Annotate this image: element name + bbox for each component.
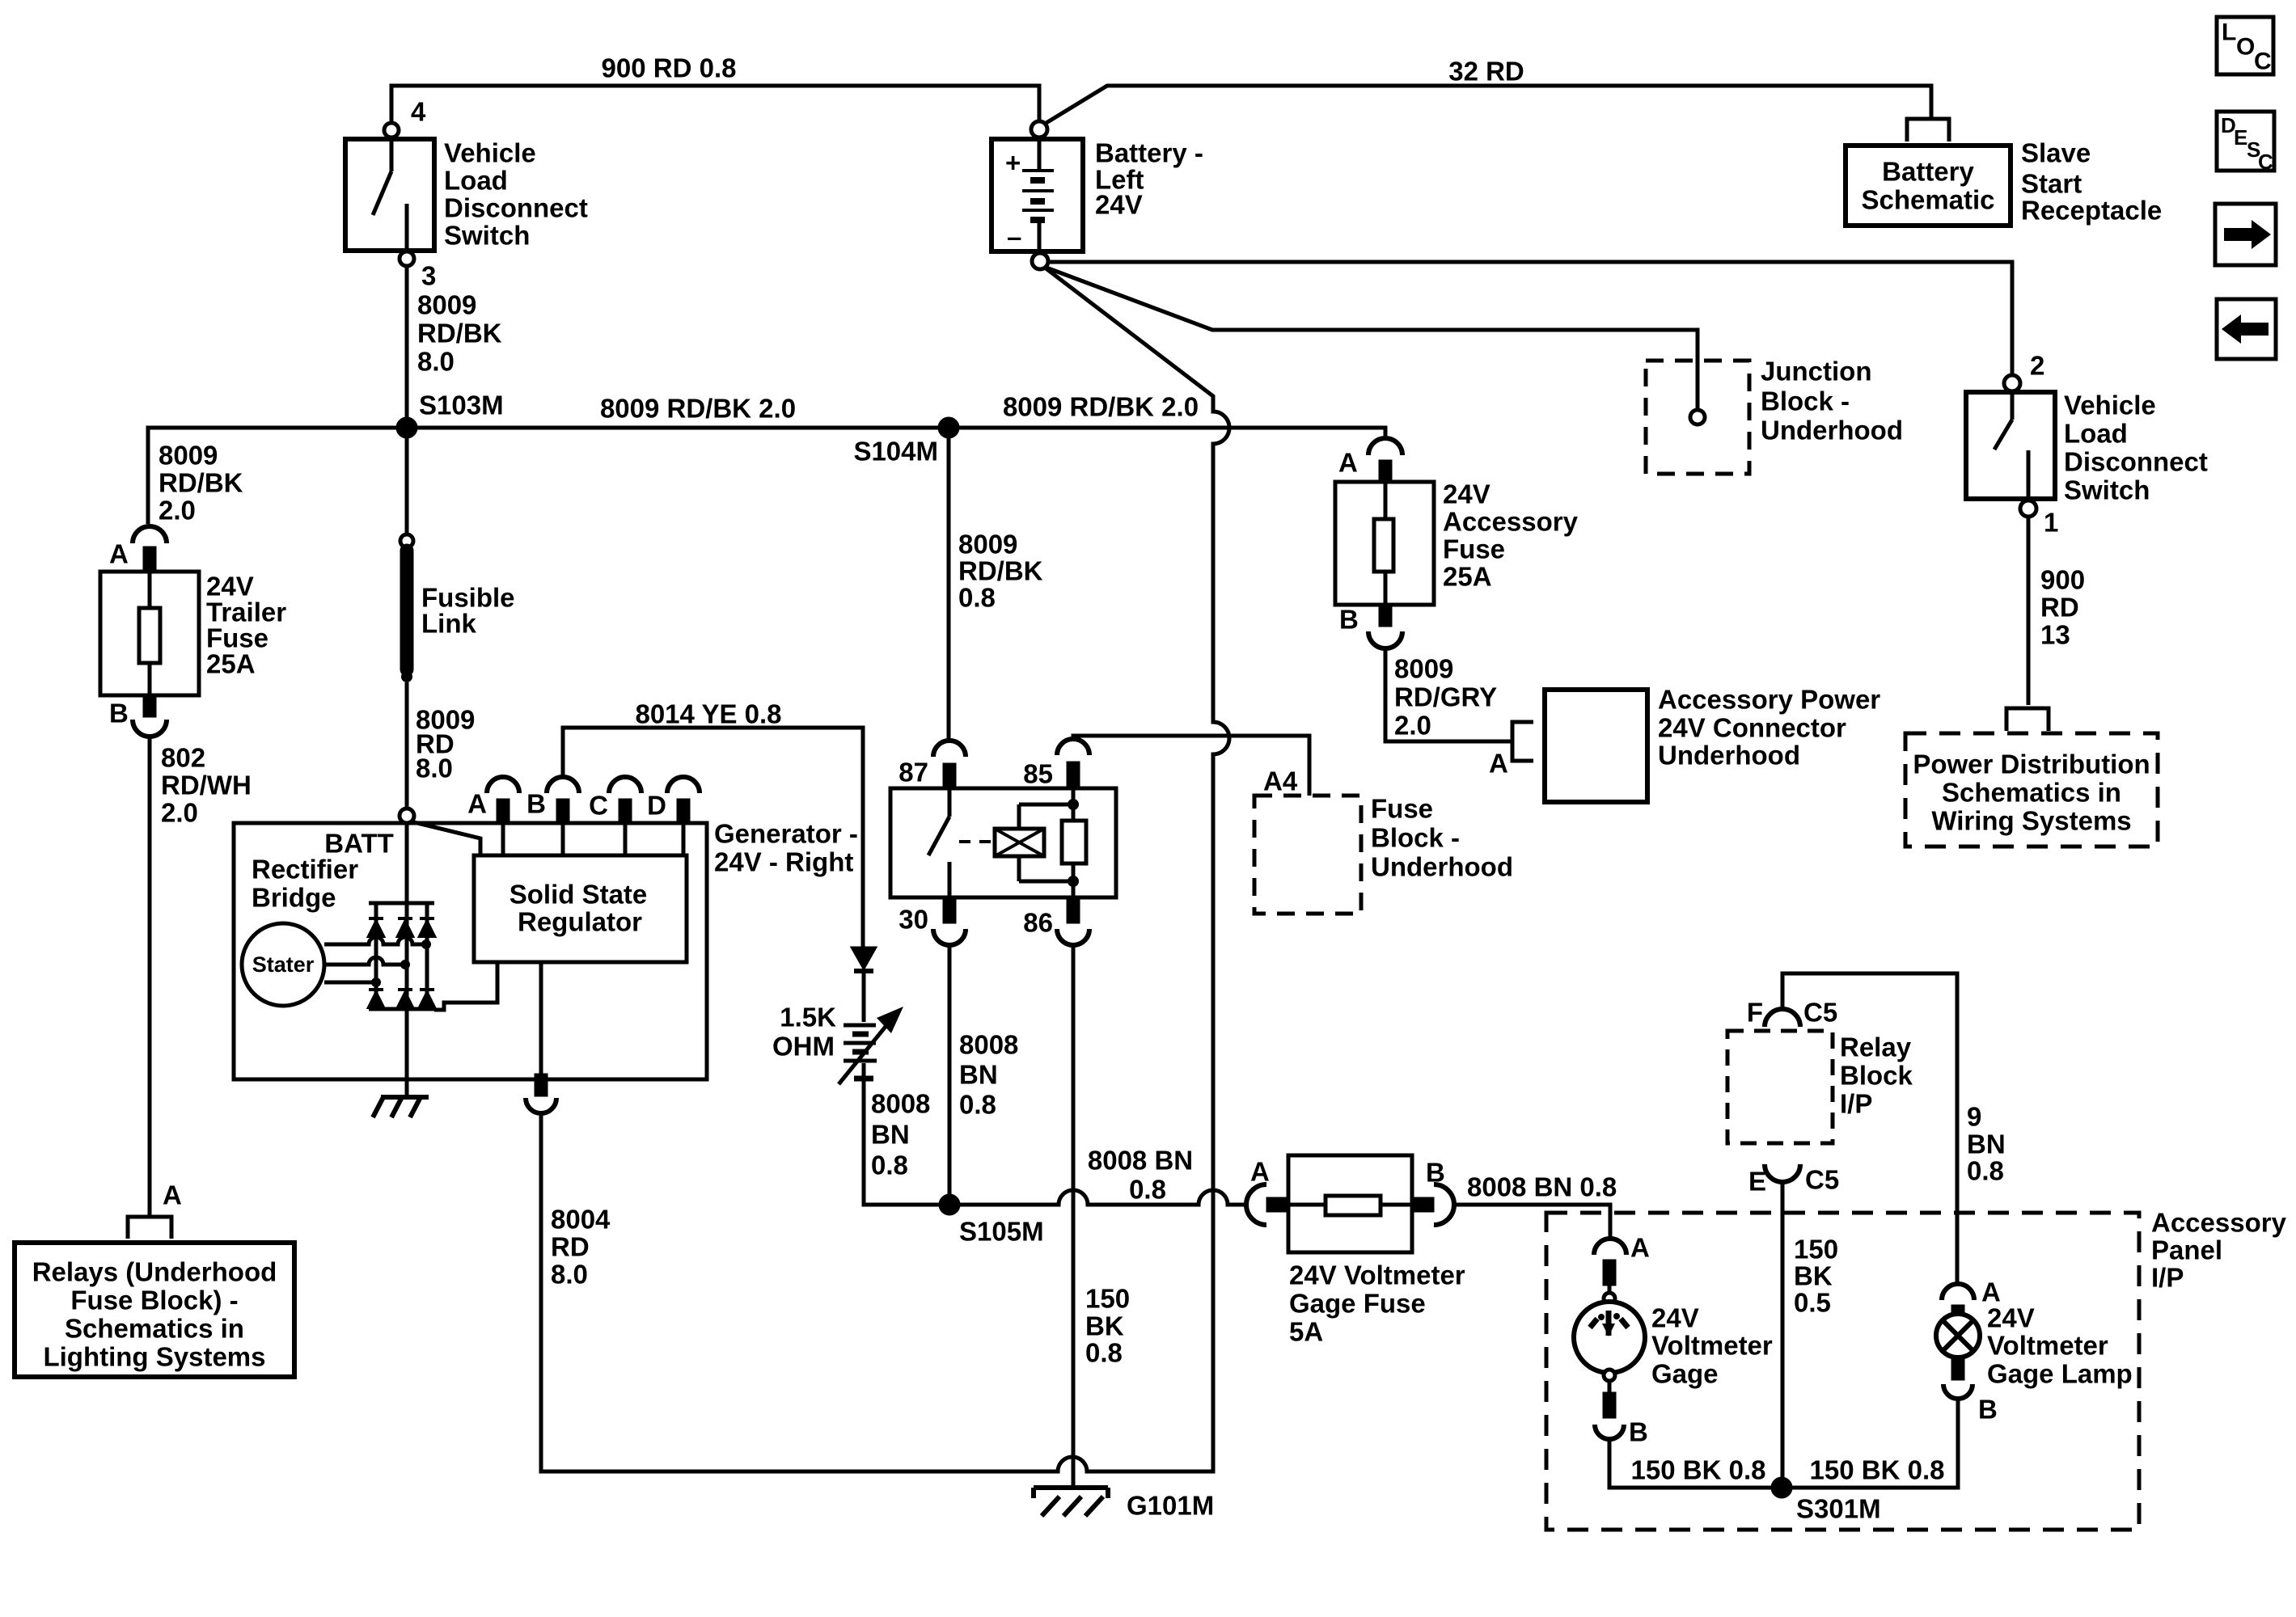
svg-text:8008: 8008 [871, 1089, 930, 1119]
svg-text:8.0: 8.0 [551, 1260, 588, 1290]
relay pin 87 [933, 741, 966, 788]
svg-text:8.0: 8.0 [416, 754, 453, 783]
svg-text:A: A [467, 789, 487, 819]
svg-text:RD/BK: RD/BK [159, 468, 243, 498]
label 24V Voltmeter Gage Lamp [1987, 1303, 2133, 1389]
wire 802 RD/WH 2.0 [148, 737, 152, 1217]
svg-text:Bridge: Bridge [252, 883, 336, 913]
svg-text:8004: 8004 [551, 1205, 611, 1235]
svg-text:2.0: 2.0 [159, 496, 196, 526]
label Slave Start Receptacle [2021, 138, 2162, 226]
generator connector D [667, 777, 700, 855]
svg-text:Battery: Battery [1882, 157, 1974, 187]
node S103M [398, 419, 416, 437]
svg-text:B: B [1339, 605, 1359, 635]
wire 150 BK 0.8 (relay 86 to G101M) [1072, 945, 1076, 1486]
relay pin 30 [933, 897, 966, 945]
svg-text:Schematic: Schematic [1861, 185, 1994, 215]
svg-text:Fuse Block) -: Fuse Block) - [70, 1286, 238, 1315]
svg-text:Receptacle: Receptacle [2021, 196, 2162, 226]
svg-text:Stater: Stater [252, 952, 315, 977]
svg-text:A: A [1630, 1233, 1650, 1263]
svg-text:E: E [2234, 125, 2247, 150]
svg-text:Link: Link [421, 609, 476, 639]
svg-text:Fuse: Fuse [1371, 794, 1433, 824]
svg-text:Relay: Relay [1840, 1032, 1912, 1062]
svg-text:Switch: Switch [2064, 475, 2150, 505]
svg-text:900 RD 0.8: 900 RD 0.8 [602, 53, 737, 83]
svg-text:0.8: 0.8 [958, 583, 996, 613]
wire relay 85 to fuse block A4 [1073, 736, 1309, 796]
svg-text:802: 802 [161, 743, 205, 773]
power distribution receptacle [2006, 708, 2049, 731]
svg-text:O: O [2236, 34, 2255, 61]
wire 8009 RD/BK 2.0 (main bus) [148, 428, 1385, 524]
svg-text:S104M: S104M [853, 437, 938, 467]
svg-text:BN: BN [959, 1060, 998, 1090]
label 8009 RD/GRY 2.0 [1394, 654, 1497, 741]
svg-text:Fuse: Fuse [1443, 534, 1505, 564]
svg-text:Switch: Switch [444, 221, 530, 251]
svg-text:9: 9 [1967, 1102, 1981, 1132]
svg-text:Disconnect: Disconnect [444, 193, 588, 223]
svg-text:8009 RD/BK 2.0: 8009 RD/BK 2.0 [1003, 392, 1199, 422]
diode (1.5K branch) [853, 948, 874, 971]
svg-text:RD/BK: RD/BK [417, 319, 502, 348]
relay block I/P dashed box [1727, 1031, 1833, 1143]
label 900 RD 13 [2040, 565, 2085, 650]
svg-text:I/P: I/P [2151, 1263, 2184, 1293]
regulator output connector [526, 962, 556, 1113]
svg-text:BN: BN [871, 1120, 910, 1150]
svg-text:24V Voltmeter: 24V Voltmeter [1289, 1260, 1465, 1290]
power distribution guide box [1905, 733, 2158, 846]
svg-text:Power Distribution: Power Distribution [1913, 749, 2150, 779]
svg-text:8008 BN 0.8: 8008 BN 0.8 [1467, 1172, 1617, 1202]
svg-text:Voltmeter: Voltmeter [1987, 1331, 2108, 1361]
svg-text:0.8: 0.8 [959, 1090, 996, 1120]
wire 8009 RD/BK 0.8 (S104M to relay 87) [947, 437, 951, 739]
svg-text:150: 150 [1085, 1284, 1130, 1314]
svg-text:Block -: Block - [1371, 823, 1460, 853]
wire BATT terminal to regulator [411, 821, 480, 855]
generator connector A [487, 777, 519, 855]
relays guide box [15, 1243, 294, 1377]
svg-text:S105M: S105M [959, 1217, 1044, 1247]
svg-text:24V: 24V [1443, 479, 1490, 509]
svg-text:32 RD: 32 RD [1448, 57, 1524, 87]
back arrow icon [2217, 299, 2276, 359]
svg-text:Rectifier: Rectifier [252, 855, 358, 884]
wire 8008 BN 0.8 (relay 30 to S105M) [948, 945, 952, 1196]
svg-text:0.8: 0.8 [871, 1150, 908, 1180]
svg-text:OHM: OHM [772, 1032, 835, 1062]
wire 900 RD 0.8 [391, 86, 1039, 123]
wire 150 BK 0.5 (E to S301M) [1781, 1182, 1785, 1484]
svg-text:5A: 5A [1289, 1317, 1323, 1347]
wire 8004 RD 8.0 [541, 268, 1229, 1471]
stater phase wire 2 [324, 957, 405, 965]
svg-text:Generator -: Generator - [714, 819, 858, 849]
svg-text:8008 BN: 8008 BN [1088, 1146, 1193, 1176]
svg-text:Block: Block [1840, 1061, 1913, 1091]
battery schematic guide box [1846, 146, 2011, 226]
svg-text:8008: 8008 [959, 1030, 1018, 1060]
wire 8014 YE 0.8 [563, 728, 863, 947]
svg-text:3: 3 [421, 261, 436, 291]
DESC icon [2217, 112, 2274, 171]
svg-text:0.8: 0.8 [1967, 1156, 2004, 1186]
ground G101M [1034, 1488, 1108, 1516]
svg-text:A: A [163, 1180, 182, 1210]
svg-text:8014 YE 0.8: 8014 YE 0.8 [635, 699, 781, 729]
wire 8009 RD 8.0 [405, 682, 409, 808]
svg-text:A: A [1489, 749, 1508, 779]
node S105M [941, 1196, 958, 1214]
wire 150 BK 0.8 (gage B to S301M) [1609, 1439, 1773, 1488]
svg-text:L: L [2222, 19, 2236, 46]
stater phase wire 1 [324, 937, 426, 944]
svg-text:Start: Start [2021, 169, 2082, 199]
voltmeter needle [1590, 1311, 1628, 1336]
label 150 BK 0.5 [1794, 1235, 1838, 1318]
label 8008 BN 0.8 (middle) [959, 1030, 1018, 1120]
svg-text:Schematics in: Schematics in [1942, 778, 2121, 808]
svg-text:Schematics in: Schematics in [65, 1314, 244, 1344]
junction block underhood [1646, 361, 1749, 474]
svg-text:13: 13 [2040, 620, 2070, 650]
24V voltmeter gage connector A [1594, 1239, 1626, 1284]
relay internal wiring (bottom) [1019, 856, 1079, 897]
label 8008 BN 0.8 (left) [871, 1089, 930, 1180]
label Junction Block - Underhood [1761, 357, 1903, 445]
svg-text:Underhood: Underhood [1761, 416, 1903, 445]
node S104M [940, 419, 958, 437]
svg-text:150 BK 0.8: 150 BK 0.8 [1631, 1455, 1766, 1485]
relay resistor [1062, 821, 1086, 863]
label Generator - 24V - Right [714, 819, 858, 877]
wire battery to junction block [1047, 268, 1698, 410]
svg-text:8009: 8009 [958, 530, 1017, 559]
svg-text:C5: C5 [1803, 998, 1837, 1028]
label 8004 RD 8.0 [551, 1205, 611, 1290]
stater phase wire 3 [324, 981, 376, 985]
wire 32 RD [1045, 86, 1931, 124]
svg-text:S301M: S301M [1796, 1494, 1881, 1524]
24V trailer fuse [100, 526, 199, 737]
wire S103M to fusible link [405, 437, 409, 534]
solid state regulator [474, 855, 687, 962]
svg-text:RD/WH: RD/WH [161, 771, 252, 800]
svg-text:24V Connector: 24V Connector [1658, 713, 1846, 743]
svg-text:A: A [109, 539, 129, 569]
label 8009 RD/BK 2.0 (branch to trailer fuse) [159, 441, 243, 526]
svg-text:Relays (Underhood: Relays (Underhood [32, 1257, 277, 1287]
connector E C5 [1765, 1164, 1800, 1182]
svg-text:Junction: Junction [1761, 357, 1872, 386]
svg-text:RD: RD [2040, 593, 2079, 623]
svg-text:8009: 8009 [417, 290, 476, 320]
label 24V Accessory Fuse 25A [1443, 479, 1579, 592]
svg-text:C5: C5 [1805, 1165, 1839, 1195]
svg-text:Regulator: Regulator [518, 907, 642, 937]
svg-text:2.0: 2.0 [1394, 711, 1431, 741]
svg-text:Slave: Slave [2021, 138, 2091, 168]
wire BATT to internal ground [405, 823, 409, 1096]
svg-text:B: B [526, 789, 546, 819]
svg-text:B: B [1978, 1395, 1998, 1425]
label Vehicle Load Disconnect Switch (left) [444, 138, 588, 251]
label 150 BK 0.8 (86 wire) [1085, 1284, 1130, 1368]
svg-text:Vehicle: Vehicle [444, 138, 536, 168]
svg-text:Gage: Gage [1651, 1359, 1719, 1389]
relay pin 85 [1057, 739, 1089, 788]
generator BATT terminal [400, 808, 414, 823]
relay pin 86 [1057, 897, 1089, 945]
svg-text:1: 1 [2044, 508, 2058, 538]
label Rectifier Bridge [252, 855, 358, 913]
label 24V Voltmeter Gage [1651, 1303, 1773, 1389]
svg-text:Lighting Systems: Lighting Systems [43, 1342, 265, 1372]
svg-text:Accessory Power: Accessory Power [1658, 685, 1880, 715]
svg-text:24V - Right: 24V - Right [714, 847, 853, 877]
svg-text:A4: A4 [1263, 766, 1298, 796]
svg-text:Disconnect: Disconnect [2064, 447, 2208, 477]
vehicle load disconnect switch (right) [1966, 375, 2055, 517]
node S301M [1773, 1479, 1791, 1497]
svg-text:87: 87 [899, 758, 928, 787]
svg-text:24V: 24V [1095, 190, 1143, 220]
svg-text:D: D [647, 791, 666, 821]
wire 8009 RD/BK 8.0 [405, 266, 409, 424]
svg-text:8009 RD/BK 2.0: 8009 RD/BK 2.0 [600, 394, 796, 424]
svg-text:0.8: 0.8 [1085, 1338, 1123, 1368]
generator box [234, 823, 707, 1079]
label 8009 RD/BK 8.0 [417, 290, 502, 377]
wire 8008 BN 0.8 (fuse B to voltmeter) [1454, 1205, 1610, 1239]
svg-text:8.0: 8.0 [417, 347, 455, 377]
wire 8008 BN 0.8 (resistor to S105M) [864, 1063, 941, 1205]
fusible link [400, 534, 413, 682]
wire battery to right disconnect switch [1048, 262, 2012, 375]
label 8008 BN 0.8 (at hops) [1088, 1146, 1193, 1205]
variable resistor 1.5K OHM [839, 1007, 903, 1084]
svg-text:8009: 8009 [159, 441, 218, 471]
svg-text:Battery -: Battery - [1095, 138, 1203, 168]
svg-text:Gage Fuse: Gage Fuse [1289, 1289, 1426, 1319]
svg-text:30: 30 [899, 905, 928, 935]
svg-text:S103M: S103M [419, 391, 504, 420]
svg-text:1.5K: 1.5K [780, 1003, 836, 1032]
svg-text:2.0: 2.0 [161, 798, 198, 828]
generator internal ground [373, 1097, 429, 1117]
svg-text:25A: 25A [206, 649, 256, 679]
24V voltmeter gage [1574, 1284, 1645, 1439]
svg-text:Underhood: Underhood [1658, 741, 1800, 771]
svg-text:I/P: I/P [1840, 1089, 1872, 1119]
wire diode to variable resistor [862, 973, 866, 1022]
connector A (accessory power) [1512, 722, 1533, 761]
svg-text:Load: Load [2064, 419, 2128, 449]
svg-text:A: A [1250, 1157, 1270, 1187]
svg-text:150: 150 [1794, 1235, 1838, 1264]
svg-text:85: 85 [1023, 759, 1053, 789]
battery schematic receptacle [1907, 119, 1949, 141]
relay [890, 788, 1116, 897]
accessory power 24V connector underhood box [1545, 690, 1647, 802]
svg-text:RD: RD [551, 1232, 590, 1262]
relay coil [995, 829, 1044, 856]
svg-text:+: + [1005, 148, 1021, 178]
svg-text:25A: 25A [1443, 562, 1492, 592]
24V voltmeter gage lamp [1936, 1314, 1980, 1399]
svg-text:Load: Load [444, 166, 508, 196]
label 8009 RD 8.0 [416, 705, 475, 783]
wire 8009 RD/GRY 2.0 [1385, 648, 1511, 741]
rectifier bridge [369, 903, 434, 1009]
svg-text:RD/GRY: RD/GRY [1394, 682, 1497, 712]
wire 8008 BN 0.8 (S105M to gage fuse) [958, 1190, 1246, 1205]
svg-text:F: F [1747, 998, 1763, 1028]
label 1.5K OHM [772, 1003, 836, 1062]
svg-text:C: C [2254, 49, 2272, 75]
svg-text:Panel: Panel [2151, 1235, 2222, 1265]
24V accessory fuse [1335, 438, 1434, 648]
24V voltmeter gage fuse [1246, 1155, 1454, 1252]
svg-text:G101M: G101M [1127, 1491, 1214, 1521]
svg-text:2: 2 [2030, 351, 2044, 381]
svg-text:A: A [1338, 448, 1358, 478]
svg-text:86: 86 [1023, 908, 1053, 938]
accessory panel I/P dashed box [1546, 1213, 2139, 1530]
next arrow icon [2215, 204, 2276, 265]
svg-text:B: B [1426, 1158, 1445, 1188]
svg-text:Accessory: Accessory [1443, 507, 1579, 537]
svg-text:BK: BK [1794, 1261, 1833, 1291]
svg-text:B: B [109, 699, 129, 728]
label 9 BN 0.8 [1967, 1102, 2006, 1186]
svg-text:Wiring Systems: Wiring Systems [1931, 806, 2131, 836]
label 24V Trailer Fuse 25A [206, 572, 286, 679]
svg-text:8009: 8009 [1394, 654, 1453, 684]
relay internal wiring (top) [1019, 788, 1079, 829]
wire regulator to rectifier bridge [434, 962, 497, 1010]
bridge diodes (upper row) [369, 918, 434, 936]
svg-text:RD/BK: RD/BK [958, 556, 1043, 586]
relay switch [928, 788, 993, 897]
label 802 RD/WH 2.0 [161, 743, 252, 828]
label Fusible Link [421, 583, 515, 639]
svg-text:–: – [1007, 222, 1021, 252]
bridge diodes (lower row) [369, 990, 434, 1007]
svg-text:BK: BK [1085, 1311, 1124, 1341]
generator connector C [609, 777, 641, 855]
svg-text:E: E [1748, 1167, 1766, 1197]
stater [242, 923, 324, 1006]
svg-text:Solid State: Solid State [510, 880, 648, 910]
svg-text:Accessory: Accessory [2151, 1208, 2287, 1238]
connector F C5 [1765, 1009, 1800, 1027]
svg-text:900: 900 [2040, 565, 2085, 595]
battery left 24V [992, 121, 1083, 269]
vehicle load disconnect switch (left) [345, 123, 434, 266]
svg-text:Gage Lamp: Gage Lamp [1987, 1359, 2133, 1389]
wire 900 RD 13 [2027, 517, 2031, 705]
svg-text:Underhood: Underhood [1371, 852, 1513, 882]
svg-text:Voltmeter: Voltmeter [1651, 1331, 1773, 1361]
svg-text:24V: 24V [1987, 1303, 2035, 1333]
fuse block underhood (A4) [1254, 796, 1361, 914]
label 24V Voltmeter Gage Fuse 5A [1289, 1260, 1465, 1347]
generator connector B [547, 777, 579, 855]
svg-text:Vehicle: Vehicle [2064, 391, 2156, 420]
svg-text:Block -: Block - [1761, 386, 1850, 416]
24V voltmeter gage lamp connector A [1942, 1284, 1974, 1328]
svg-text:4: 4 [411, 97, 426, 127]
svg-text:150 BK 0.8: 150 BK 0.8 [1810, 1455, 1945, 1485]
svg-text:C: C [589, 791, 608, 821]
wire relay block to lamp (top link) [1782, 973, 1957, 1282]
svg-text:0.8: 0.8 [1129, 1175, 1166, 1205]
svg-text:0.5: 0.5 [1794, 1288, 1831, 1318]
LOC icon [2217, 17, 2273, 74]
svg-text:BN: BN [1967, 1129, 2006, 1159]
label Vehicle Load Disconnect Switch (right) [2064, 391, 2208, 505]
wire 150 BK 0.8 (lamp B to S301M) [1791, 1399, 1958, 1488]
label 8009 RD/BK 0.8 [958, 530, 1043, 613]
svg-text:24V: 24V [1651, 1303, 1699, 1333]
svg-text:B: B [1629, 1417, 1648, 1447]
svg-text:C: C [2258, 150, 2273, 174]
label Battery - Left 24V [1095, 138, 1203, 220]
